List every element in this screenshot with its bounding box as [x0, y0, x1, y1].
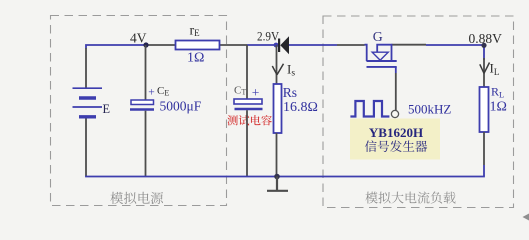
- svg-text:5000μF: 5000μF: [160, 99, 202, 114]
- svg-text:E: E: [103, 102, 111, 116]
- label 测试电容 (test capacitor): [227, 115, 271, 125]
- wire: 0.88V down to RL: [483, 58, 485, 87]
- wire: diode cathode-right to mid segment (blue): [289, 44, 337, 46]
- dashed box: simulated power supply region: [51, 16, 227, 206]
- MOSFET arrow (hollow triangle): [372, 52, 388, 60]
- label 模拟大电流负载 (simulated high-current load): [365, 191, 455, 203]
- wire: bottom rail: [85, 176, 485, 178]
- generator output terminal circle: [391, 110, 398, 117]
- junction dot at ground: [274, 174, 280, 180]
- svg-text:16.8Ω: 16.8Ω: [283, 100, 318, 115]
- svg-text:2.9V: 2.9V: [257, 29, 280, 44]
- svg-text:0.88V: 0.88V: [469, 31, 503, 46]
- svg-text:1Ω: 1Ω: [187, 51, 204, 66]
- node 2.9V dot: [274, 43, 279, 48]
- wire: battery bottom to bottom rail: [85, 119, 87, 177]
- wire: RL bottom to bottom rail: [483, 132, 485, 165]
- svg-text:500kHZ: 500kHZ: [408, 102, 451, 117]
- svg-text:+: +: [148, 87, 155, 99]
- dashed box: simulated high-current load region: [323, 16, 514, 208]
- capacitor CE plates: [131, 100, 154, 105]
- square wave symbol: [350, 101, 389, 117]
- MOSFET source staple: [377, 45, 391, 61]
- resistor RS: [274, 84, 282, 133]
- current arrow IS: [272, 64, 283, 75]
- svg-text:YB1620H: YB1620H: [369, 125, 423, 140]
- resistor RL: [480, 87, 489, 132]
- wire: mid segment to MOSFET drain (dark): [337, 44, 365, 46]
- wire: rE right to CT branch: [220, 44, 248, 46]
- svg-text:G: G: [373, 29, 383, 44]
- node 0.88V dot: [481, 43, 486, 48]
- wire: 4V node down to CE: [145, 45, 147, 100]
- MOSFET channel line: [367, 60, 397, 62]
- signal generator box YB1620H: [350, 119, 440, 160]
- MOSFET drain leg: [365, 45, 367, 61]
- resistor rE: [176, 41, 220, 50]
- wire: mid-right to 0.88V corner (blue): [426, 45, 484, 60]
- wire: gate down to generator terminal: [395, 67, 397, 73]
- wire: MOSFET source to mid-right (dark): [392, 44, 427, 46]
- wire: top-left corner to 4V node (blue): [86, 45, 146, 49]
- small gray arrow artifact: [523, 214, 529, 221]
- wire: top rail down to CT: [246, 45, 248, 99]
- svg-text:+: +: [252, 85, 260, 100]
- capacitor CT plates: [234, 99, 262, 104]
- diode (cathode bar + left-pointing triangle): [278, 36, 289, 54]
- label 模拟电源 (simulated power supply): [110, 192, 163, 204]
- wire: 4V node to rE left: [146, 44, 176, 46]
- label 信号发生器 (signal generator): [365, 140, 427, 152]
- battery E plates: [73, 88, 103, 117]
- wire: 2.9V node down to RS: [276, 45, 278, 84]
- svg-text:4V: 4V: [130, 32, 147, 47]
- node 4V dot: [143, 42, 148, 47]
- wire: CT branch to 2.9V node (blue): [247, 44, 276, 46]
- current arrow IL: [480, 63, 490, 74]
- wire: CE bottom to bottom rail: [145, 111, 147, 177]
- svg-text:Rs: Rs: [283, 85, 297, 100]
- wire: down to battery top: [85, 48, 87, 88]
- svg-text:1Ω: 1Ω: [490, 100, 507, 115]
- MOSFET gate plate: [367, 66, 397, 68]
- wire: RS bottom to ground junction: [276, 133, 278, 177]
- wire: CT bottom to bottom rail: [246, 110, 248, 176]
- ground symbol: [267, 177, 288, 191]
